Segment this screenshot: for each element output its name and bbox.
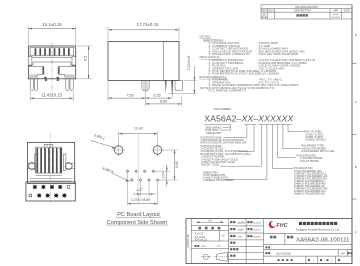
svg-text:8=POSITIONS 8P, 10=POSITIONS 1: 8=POSITIONS 8P, 10=POSITIONS 10P xyxy=(201,141,247,145)
svg-text:6.35: 6.35 xyxy=(154,94,161,98)
svg-text:6=100U" 8=150U": 6=100U" 8=150U" xyxy=(306,138,327,142)
svg-text:Leon: Leon xyxy=(238,227,244,231)
svg-text:APP: APP xyxy=(333,10,338,13)
svg-text:: 1000 VAC RMS 60HZ/1MIN: : 1000 VAC RMS 60HZ/1MIN xyxy=(257,52,299,56)
svg-text:PART NUMBER: PART NUMBER xyxy=(214,108,231,111)
svg-text:9.5: 9.5 xyxy=(84,56,88,61)
svg-text:B: B xyxy=(355,165,357,169)
svg-text:FCC PART68 SUBPART F: FCC PART68 SUBPART F xyxy=(209,89,247,93)
svg-text:FHC: FHC xyxy=(276,223,287,229)
svg-text:20-08-08: 20-08-08 xyxy=(253,229,261,231)
svg-text:gaofei: gaofei xyxy=(238,220,246,224)
svg-text:11.43: 11.43 xyxy=(134,127,143,131)
svg-text:1:1: 1:1 xyxy=(217,245,221,248)
svg-text:Dongguan Fenghai Electronics C: Dongguan Fenghai Electronics Co.,Ltd xyxy=(296,228,340,231)
svg-text:2=POLARIZED WITH 2 LEG: 2=POLARIZED WITH 2 LEG xyxy=(302,149,335,153)
svg-text:9=BACK POLARIZED(-40): 9=BACK POLARIZED(-40) xyxy=(294,191,325,195)
svg-text:17.74±0.15: 17.74±0.15 xyxy=(137,22,160,27)
svg-text:9=100U" GOLD: 9=100U" GOLD xyxy=(201,162,219,166)
svg-text:SIDE ENTRY: SIDE ENTRY xyxy=(206,131,222,135)
svg-text:REVISION RECORD: REVISION RECORD xyxy=(295,6,318,9)
svg-text:7.55: 7.55 xyxy=(127,94,134,98)
svg-text:3.23±0.15: 3.23±0.15 xyxy=(187,56,191,71)
svg-text::mm: :mm xyxy=(201,245,206,248)
svg-text:2=SHIELD PIN (SOLDER): 2=SHIELD PIN (SOLDER) xyxy=(203,178,234,182)
svg-text:8.89: 8.89 xyxy=(160,100,167,104)
svg-text:.XXX ±0.13: .XXX ±0.13 xyxy=(194,238,207,241)
svg-text:REV: REV xyxy=(262,10,267,13)
svg-text:8.89: 8.89 xyxy=(175,161,179,167)
svg-text:gaofei: gaofei xyxy=(333,14,339,16)
svg-text:±1°: ±1° xyxy=(222,235,226,238)
svg-text:A4: A4 xyxy=(341,251,345,255)
svg-text:20-08-08: 20-08-08 xyxy=(253,236,261,238)
svg-text:n/a: n/a xyxy=(238,234,242,238)
svg-text:11.43±0.15: 11.43±0.15 xyxy=(41,93,62,98)
svg-text:XA56A2–XX–XXXXXX: XA56A2–XX–XXXXXX xyxy=(204,113,293,123)
svg-text:15.1±0.15: 15.1±0.15 xyxy=(42,22,62,27)
svg-text:20-08-08: 20-08-08 xyxy=(332,17,341,19)
svg-text:DESCRIPTION: DESCRIPTION xyxy=(294,10,311,13)
svg-text:A: A xyxy=(355,230,357,234)
svg-text:DATE: DATE xyxy=(344,10,351,13)
svg-text:DCN-20001B: DCN-20001B xyxy=(276,252,291,255)
svg-text:1.27: 1.27 xyxy=(136,188,143,192)
svg-text:XA56A2-08-100111: XA56A2-08-100111 xyxy=(296,237,350,243)
svg-text:2.54: 2.54 xyxy=(162,172,166,178)
svg-text:XX: XX xyxy=(208,220,212,223)
svg-text:2=FLAT PRONG: 2=FLAT PRONG xyxy=(300,159,319,163)
svg-text:ECN: ECN xyxy=(268,10,273,13)
svg-text:XA56A2-08: XA56A2-08 xyxy=(186,234,190,248)
svg-text:1.27X7=8.89: 1.27X7=8.89 xyxy=(131,198,150,202)
svg-text:20-08-08: 20-08-08 xyxy=(253,222,261,224)
